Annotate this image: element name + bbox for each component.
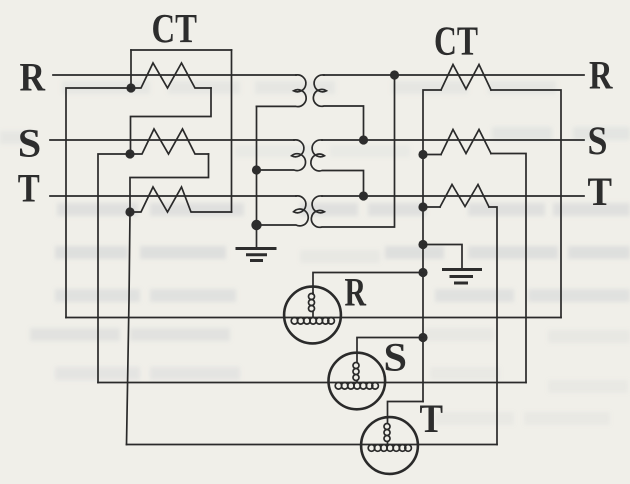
wire T CT right exit [489,207,497,445]
wire S phase line left [50,139,294,141]
wire T phase line left [50,195,296,197]
CT S-phase left zigzag [130,129,209,154]
node T CT tap [125,207,134,216]
wire R meter voltage lead [313,273,423,294]
svg-text:T: T [18,166,40,211]
CT R-phase left zigzag [131,63,211,88]
svg-text:T: T [420,396,444,441]
wire CT box right edge [231,50,233,212]
wire T meter current line [127,444,498,446]
transformer primary winding S [257,140,306,171]
svg-text:R: R [589,53,613,98]
CT T-phase left zigzag [130,187,232,212]
wire CT box top [131,49,232,51]
svg-text:CT: CT [434,18,478,64]
meter R [284,287,341,344]
wire right CT common lead T [423,206,440,208]
wire R meter current line [66,317,561,319]
node R meter voltage tap [418,268,427,277]
wire CT-S secondary loop [130,154,209,212]
node S CT tap [125,149,134,158]
svg-text:S: S [588,118,608,163]
wire T CT lead down [127,212,131,445]
CT S-phase right zigzag [441,130,491,155]
meter S [329,353,386,410]
wire R CT right exit [491,90,561,318]
node primary neutral S [252,165,261,174]
svg-text:CT: CT [152,5,198,51]
wire CT-R secondary loop [131,88,212,154]
node delta corner S [359,135,368,144]
svg-text:T: T [588,169,613,214]
node R CT tap [126,83,135,92]
wire T phase line right [322,195,584,197]
node delta corner T [359,191,368,200]
CT T-phase right zigzag [440,185,489,208]
ground primary neutral [237,225,275,261]
node S meter voltage tap [418,333,427,342]
wire R phase line right [324,74,585,76]
ground secondary [444,270,481,284]
wire R phase line left [53,74,296,76]
wire S meter voltage lead [357,338,423,363]
wire R CT lead down [66,88,131,318]
transformer secondary winding R [313,75,363,140]
CT R-phase right zigzag [441,65,491,91]
svg-text:S: S [384,335,408,380]
svg-text:S: S [18,121,42,166]
transformer secondary winding T [311,75,394,227]
transformer primary winding R [257,75,307,107]
node right CT common S [418,150,427,159]
svg-text:R: R [20,55,46,100]
wire CT box left edge [130,50,132,88]
node delta corner R [390,70,399,79]
wire primary neutral [256,106,258,225]
node primary neutral T [251,220,261,230]
transformer primary winding T [257,196,309,226]
svg-text:R: R [345,270,367,315]
wire S CT lead down [98,154,130,383]
node ground tap [418,240,427,249]
wire S CT right exit [491,154,526,383]
wire right CT common lead R [423,90,441,402]
meter T [361,417,418,474]
wire S phase line right [322,139,584,141]
wire T meter voltage lead [388,402,424,424]
transformer secondary winding S [311,140,364,196]
wire right CT common lead S [423,154,441,156]
node right CT common T [418,202,427,211]
wire ground branch [423,245,462,269]
wire S meter current line [98,382,526,384]
